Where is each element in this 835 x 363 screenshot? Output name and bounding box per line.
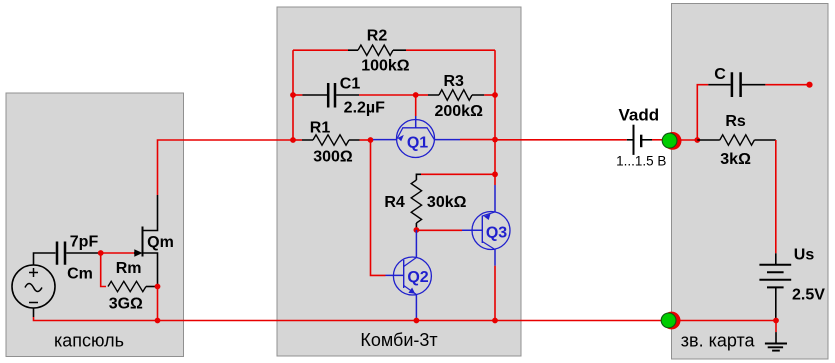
svg-text:Vadd: Vadd (618, 106, 659, 125)
battery Vadd short plate (640, 135, 642, 148)
wire Rm left drop red (101, 253, 106, 287)
transistor Q2 base lead blue (386, 274, 404, 276)
transistor Q3 emitter arrow (484, 214, 491, 220)
resistor R4 top lead (416, 174, 421, 180)
node C/Rs junction (694, 137, 700, 143)
transistor Q2 emitter arrow (408, 288, 415, 294)
transistor Qm JFET gate arrow (134, 252, 140, 254)
wire R4 top to rail (421, 173, 495, 175)
wire R2 row right (406, 49, 495, 51)
capacitor C1 left lead (302, 94, 327, 96)
resistor Rs right lead (754, 139, 775, 141)
wire Vadd to connector (652, 139, 664, 141)
svg-text:200kΩ: 200kΩ (434, 103, 483, 120)
resistor R4 zigzag (411, 180, 421, 223)
transistor Q2 emitter lead (415, 295, 417, 321)
svg-text:1...1.5 В: 1...1.5 В (616, 154, 666, 169)
wire C1 left stub (293, 94, 302, 96)
svg-text:C: C (714, 66, 726, 83)
node Q2 emitter bus junction (414, 318, 420, 324)
transistor Qm drain lead (143, 195, 158, 231)
wire C to output (765, 84, 809, 86)
svg-text:3kΩ: 3kΩ (720, 151, 751, 168)
svg-text:Rm: Rm (116, 260, 142, 277)
resistor Rm right lead (146, 286, 158, 288)
wire source bottom lead (33, 308, 35, 317)
battery Us plates (759, 265, 791, 288)
capacitor C left lead (708, 84, 730, 86)
transistor Qm source lead (143, 253, 158, 287)
svg-text:2.5V: 2.5V (792, 287, 825, 304)
battery Vadd right lead (641, 139, 652, 141)
svg-text:Rs: Rs (725, 113, 746, 130)
battery Us top lead (775, 253, 777, 264)
wire Q1 base red segment (415, 95, 417, 116)
node C1 row left junction (290, 92, 296, 98)
svg-text:2.2µF: 2.2µF (344, 100, 385, 117)
svg-text:Us: Us (794, 246, 815, 263)
wire Rs down to Us (775, 140, 777, 253)
svg-text:3GΩ: 3GΩ (109, 296, 143, 313)
ground stem (775, 332, 777, 343)
wire Q3 collector to bus (494, 266, 496, 321)
connector gnd (red ring) (663, 312, 681, 330)
transistor Q1 collector lead (434, 139, 460, 141)
transistor Q3 circle (472, 212, 510, 250)
AC source symbol (12, 265, 55, 308)
connector in (green) (662, 133, 677, 148)
svg-text:Q2: Q2 (407, 269, 428, 286)
battery Us bottom lead (775, 287, 777, 318)
node R1 row left junction (290, 137, 296, 143)
transistor Q1 base lead blue (415, 116, 417, 128)
svg-text:300Ω: 300Ω (313, 149, 353, 166)
wire source top to Cm (34, 253, 56, 265)
svg-text:Q3: Q3 (486, 224, 507, 241)
svg-text:Комби-3т: Комби-3т (360, 330, 437, 350)
wire Cm right lead (66, 252, 98, 254)
transistor Q3 collector diagonal (482, 242, 495, 250)
wire R3 left stub (416, 94, 428, 96)
node Q1 base row junction (413, 92, 419, 98)
wire C1 to Q1 base junction (359, 94, 416, 96)
resistor Rm zigzag (108, 281, 146, 291)
transistor Q1 emitter arrow (398, 135, 404, 141)
wire up to C row (697, 85, 708, 140)
wire right rail x=495 (494, 50, 496, 174)
resistor R4 bottom lead (415, 223, 417, 230)
transistor Q2 base bar (403, 260, 405, 288)
wire rail to Vadd battery (495, 139, 627, 141)
connector in (red ring) (664, 132, 682, 150)
resistor R3 zigzag (439, 90, 472, 100)
node output endpoint (806, 82, 812, 88)
wire R1 right stub (360, 139, 371, 141)
resistor Rs left lead (697, 139, 720, 141)
wire Q2 base drop (371, 140, 386, 275)
node R3/rail junction (492, 92, 498, 98)
wire drain red up-right (158, 140, 294, 195)
svg-text:R1: R1 (310, 120, 331, 137)
wire Q3 emitter to junction (494, 174, 496, 185)
wire gate net red (98, 252, 135, 254)
svg-text:100kΩ: 100kΩ (361, 58, 410, 75)
resistor R1 leads (302, 139, 360, 141)
block box: капсюль (capsule) (6, 93, 184, 357)
capacitor C1 plates (328, 83, 335, 108)
transistor Q2 emitter diagonal (404, 286, 417, 295)
wire R1 left stub (293, 139, 302, 141)
node Q1 out junction (492, 137, 498, 143)
node R1/Q1 emitter junction (368, 137, 374, 143)
svg-text:C1: C1 (340, 76, 361, 93)
resistor R1 zigzag (313, 135, 349, 145)
transistor Q2 circle (393, 257, 431, 295)
wire Q1 collector to rail (460, 139, 495, 141)
block box: Комби-3т (277, 7, 521, 356)
transistor Q2 collector lead (415, 230, 417, 258)
svg-text:7pF: 7pF (70, 234, 99, 251)
svg-text:Cm: Cm (67, 266, 93, 283)
capacitor C1 right lead (336, 94, 359, 96)
wire R3 right stub (484, 94, 495, 96)
capacitor Cm plates (57, 242, 65, 265)
node Q3 bus junction (492, 318, 498, 324)
svg-text:R2: R2 (367, 28, 388, 45)
battery Vadd long plate (633, 125, 635, 155)
transistor Q1 emitter diagonal (397, 128, 403, 140)
transistor Q3 base bar (481, 216, 483, 244)
transistor Q1 base bar (402, 127, 427, 129)
node R4/Q2 collector junction (414, 227, 420, 233)
node Us/ground bus junction (773, 318, 779, 324)
node capsule bottom bus junction (155, 318, 161, 324)
wire Q3 base red (416, 229, 462, 231)
block box: зв. карта (sound card) (672, 4, 829, 360)
capacitor C right lead (742, 84, 766, 86)
resistor R2 leads (348, 49, 406, 51)
node R4/rail/Q3 junction (492, 171, 498, 177)
resistor R3 leads (428, 94, 484, 96)
svg-text:Qm: Qm (147, 234, 174, 251)
capacitor C plates (732, 72, 741, 97)
transistor Q2 collector diagonal (404, 258, 417, 267)
connector gnd (green) (661, 313, 676, 328)
wire junction to ground red (775, 321, 777, 333)
ground bars (765, 344, 787, 351)
svg-text:30kΩ: 30kΩ (427, 194, 467, 211)
resistor R2 zigzag (358, 45, 393, 55)
svg-text:Q1: Q1 (407, 134, 428, 151)
transistor Q3 base lead blue (462, 229, 482, 231)
node Rm/source junction (155, 284, 161, 290)
transistor Q1 circle (397, 120, 435, 158)
transistor Q3 emitter lead blue (494, 185, 496, 212)
transistor Q3 emitter diagonal (482, 212, 495, 216)
wire Rm junction to bottom bus (157, 287, 159, 321)
transistor Qm channel bar (142, 227, 144, 257)
node Cm/gate junction (98, 250, 104, 256)
wire bottom bus left (34, 317, 777, 321)
wire left rail x=293 (292, 50, 294, 140)
transistor Q3 collector lead blue (494, 250, 496, 266)
transistor Q1 emitter lead (373, 139, 397, 141)
svg-text:зв. карта: зв. карта (681, 330, 756, 350)
battery Vadd left lead (627, 139, 634, 141)
wire R2 row left (293, 49, 348, 51)
transistor Q1 collector diagonal (427, 128, 434, 140)
resistor Rs zigzag (720, 135, 755, 145)
wire connector to Rs junction (678, 139, 697, 141)
svg-text:R3: R3 (443, 73, 464, 90)
svg-text:R4: R4 (384, 194, 405, 211)
svg-text:капсюль: капсюль (54, 331, 124, 351)
